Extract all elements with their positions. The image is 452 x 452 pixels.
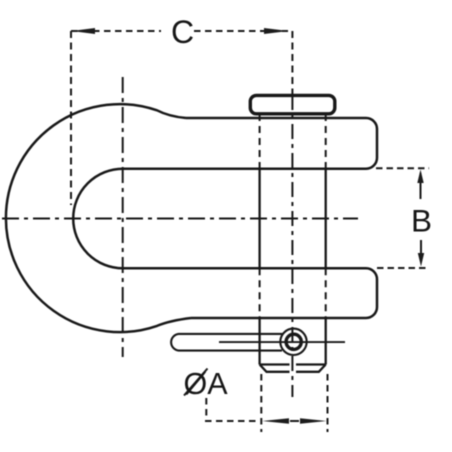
svg-text:ØA: ØA bbox=[184, 367, 229, 401]
svg-text:B: B bbox=[411, 203, 432, 239]
svg-text:C: C bbox=[171, 14, 194, 50]
